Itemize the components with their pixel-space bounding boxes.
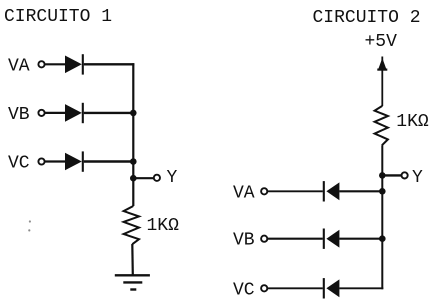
wire Y branch (circuit 2) (382, 174, 401, 176)
svg-text:VA: VA (8, 56, 30, 76)
wire diode D2 to bus (84, 112, 135, 114)
stray speck 2 (28, 229, 30, 231)
diode D3 (VC, circuit 1) (65, 151, 83, 171)
svg-text:CIRCUITO 1: CIRCUITO 1 (4, 7, 112, 27)
svg-text:1KΩ: 1KΩ (396, 112, 429, 132)
wire vertical bus (circuit 2) (381, 145, 383, 289)
diode D2 (VB, circuit 1) (65, 103, 83, 123)
power arrow +5V (377, 57, 387, 71)
diode D5 (VB, circuit 2) (324, 229, 340, 249)
diode D1 (VA, circuit 1) (65, 54, 83, 74)
svg-text:VB: VB (8, 105, 30, 125)
svg-text:CIRCUITO 2: CIRCUITO 2 (313, 8, 421, 28)
terminal VC (circuit 2) (261, 285, 267, 291)
wire diode D3 to bus (84, 160, 135, 162)
junction bus/VB (130, 110, 137, 117)
terminal VA (circuit 1) (38, 61, 44, 67)
wire VB terminal to diode D5 (268, 238, 323, 240)
svg-text:VA: VA (233, 183, 255, 203)
wire VC terminal to diode D6 (268, 287, 323, 289)
junction bus/VA (circuit 2) (379, 188, 386, 195)
resistor R2 1K (circuit 2) (375, 106, 388, 145)
wire VA terminal to diode D1 (45, 63, 66, 65)
wire VB terminal to diode D2 (45, 112, 66, 114)
terminal VB (circuit 1) (38, 110, 44, 116)
wire diode D5 to bus (339, 238, 383, 240)
stray speck 1 (29, 220, 31, 222)
wire Y branch (circuit 1) (133, 177, 153, 179)
wire resistor R1 to ground (131, 244, 134, 275)
svg-text:VB: VB (233, 231, 255, 251)
wire diode D6 to bus corner (339, 287, 383, 289)
terminal VB (circuit 2) (261, 236, 267, 242)
terminal VA (circuit 2) (261, 188, 267, 194)
resistor R1 1K (circuit 1) (124, 206, 139, 244)
junction bus/VC (130, 158, 137, 165)
wire +5V to resistor R2 (381, 70, 383, 106)
svg-text:VC: VC (233, 280, 255, 300)
terminal Y (circuit 1) (154, 175, 160, 181)
svg-text:VC: VC (8, 154, 30, 174)
wire VC terminal to diode D3 (45, 160, 66, 162)
diode D4 (VA, circuit 2) (324, 181, 340, 201)
terminal VC (circuit 1) (38, 158, 44, 164)
svg-text:Y: Y (167, 168, 178, 188)
wire diode D1 to bus (84, 63, 135, 65)
svg-text:Y: Y (412, 168, 423, 188)
diode D6 (VC, circuit 2) (324, 278, 340, 298)
svg-text:1KΩ: 1KΩ (147, 216, 180, 236)
wire diode D4 to bus (339, 190, 383, 192)
ground (circuit 1) (115, 275, 150, 289)
junction bus/Y (circuit 1) (130, 175, 137, 182)
junction bus/Y (circuit 2) (379, 172, 386, 179)
terminal Y (circuit 2) (402, 172, 408, 178)
junction bus/VB (circuit 2) (379, 235, 386, 242)
wire vertical bus (circuit 1) (132, 63, 134, 206)
svg-text:+5V: +5V (365, 32, 398, 52)
wire VA terminal to diode D4 (268, 190, 323, 192)
